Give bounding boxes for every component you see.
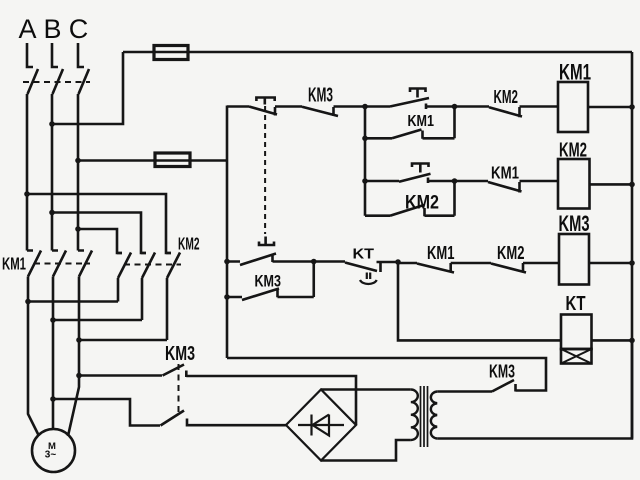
svg-text:KM2: KM2 [497,242,525,263]
contact KM1 holding [365,107,455,139]
svg-text:A: A [18,14,36,44]
svg-text:KM1: KM1 [427,242,455,263]
svg-text:KT: KT [566,293,586,315]
node branch1 left [362,104,368,110]
svg-text:KM1: KM1 [2,254,26,274]
svg-text:KM1: KM1 [559,60,591,85]
motor M [32,429,75,472]
svg-text:KM3: KM3 [165,343,195,365]
contact KT delayed [314,262,398,285]
svg-text:KM3: KM3 [308,85,333,107]
wire motor lead U [28,302,39,437]
contact KM1 NC (branch3) [398,263,491,273]
contactor KM3 power pole 1 [79,365,356,426]
transformer TC primary winding [431,392,437,439]
coil KM3 [559,211,633,285]
wire KM2 feed from B [52,213,146,254]
fuse FU2 [155,153,190,167]
svg-text:KM2: KM2 [494,87,519,107]
transformer TC secondary winding [411,390,418,441]
node KM3 holding left [224,294,230,300]
node brake tap W [76,373,82,379]
wire fuse2 tap [78,159,227,162]
wire phase A vertical [26,94,29,251]
wire KM2 feed from C [78,229,122,253]
stop button plunger dashed [264,106,266,234]
node KT coil rail [629,338,635,344]
coil KM1 [558,60,632,133]
svg-text:KM3: KM3 [559,211,590,236]
svg-text:KM2: KM2 [178,234,200,254]
node branch1 right [452,104,458,110]
wire motor phase W join [79,339,167,342]
start button SB3 NO [365,164,455,184]
svg-text:KM3: KM3 [255,273,282,291]
node W [76,337,82,343]
wire KT coil branch [398,262,561,340]
node branch2 right [452,178,458,184]
wire primary bottom to right rail [437,340,632,438]
contact KM2 NC (branch3) [491,263,559,273]
contact KM2 holding [365,181,455,216]
node U [25,299,31,305]
coil KM2 [558,140,632,209]
wire control top rail [123,51,632,54]
knife switch linkage dashed [23,81,90,83]
wire bridge top to transformer [321,388,411,391]
contactor KM1 pole 2 [52,251,66,321]
node branch3 left [224,259,230,265]
svg-text:KM2: KM2 [559,140,587,162]
node coil KM1 rail [629,104,635,110]
transformer TC core [421,386,428,447]
wire motor phase U join [28,300,118,303]
contactor KM2 pole 2 [141,253,155,321]
node branch2 left [362,178,368,184]
knife switch QS pole B [52,43,63,94]
wire branch column [364,138,367,215]
knife switch QS pole A [27,43,38,94]
node V [50,317,56,323]
contactor KM2 pole 1 [117,253,131,302]
node A tap [24,191,30,197]
contactor KM3 aux contact (transformer) [227,358,546,392]
wire KM2 feed from A [27,194,171,253]
wire motor lead V [52,320,55,430]
contact KM2 NC interlock (branch1) [455,107,559,118]
contact KM1 NC interlock (branch2) [455,181,559,193]
wire motor lead W [68,340,79,436]
stop button SB1 NC [227,98,302,116]
svg-text:C: C [69,14,89,44]
wire primary top [437,390,492,393]
node B tap [49,210,55,216]
contact KM3 NC (branch1) [302,107,365,117]
node branch3 mid [311,259,317,265]
node KT branch [395,259,401,265]
node coil KM3 rail [629,260,635,266]
wire fuse1 tap [52,52,123,124]
svg-text:B: B [43,14,61,44]
start button SB4 NO (brake) [227,237,314,266]
svg-text:KT: KT [353,246,375,263]
contactor KM2 pole 3 [166,253,180,341]
control left rail [226,106,229,359]
wire phase C vertical [77,94,80,251]
node fuse1 tap [49,121,55,127]
contactor KM1 pole 3 [78,251,92,341]
contactor KM1 linkage dashed [34,263,90,265]
node coil KM2 rail [629,182,635,188]
node fuse2 tap [75,158,81,164]
contactor KM3 power pole 2 [53,399,286,427]
contact KM3 NC holding [227,262,314,301]
start button SB2 NO [365,89,455,110]
wire phase B vertical [51,94,54,251]
contactor KM2 linkage dashed [124,264,181,266]
contactor KM3 power linkage dashed [178,364,180,415]
fuse FU1 [154,46,188,60]
svg-text:KM3: KM3 [489,362,515,382]
node KM1 holding left [362,136,368,142]
svg-text:KM2: KM2 [405,192,439,214]
wire bridge bottom to transformer [321,440,411,461]
svg-text:KM1: KM1 [408,113,435,130]
relay KT coil [561,293,632,364]
control right rail [631,52,634,439]
node C tap [75,226,81,232]
node brake tap V [50,396,56,402]
svg-text:3~: 3~ [45,450,57,461]
knife switch QS pole C [78,43,89,94]
bridge rectifier VC [286,390,356,461]
svg-text:KM1: KM1 [491,163,519,183]
wire motor phase V join [53,319,142,322]
contactor KM1 pole 1 [27,251,41,302]
